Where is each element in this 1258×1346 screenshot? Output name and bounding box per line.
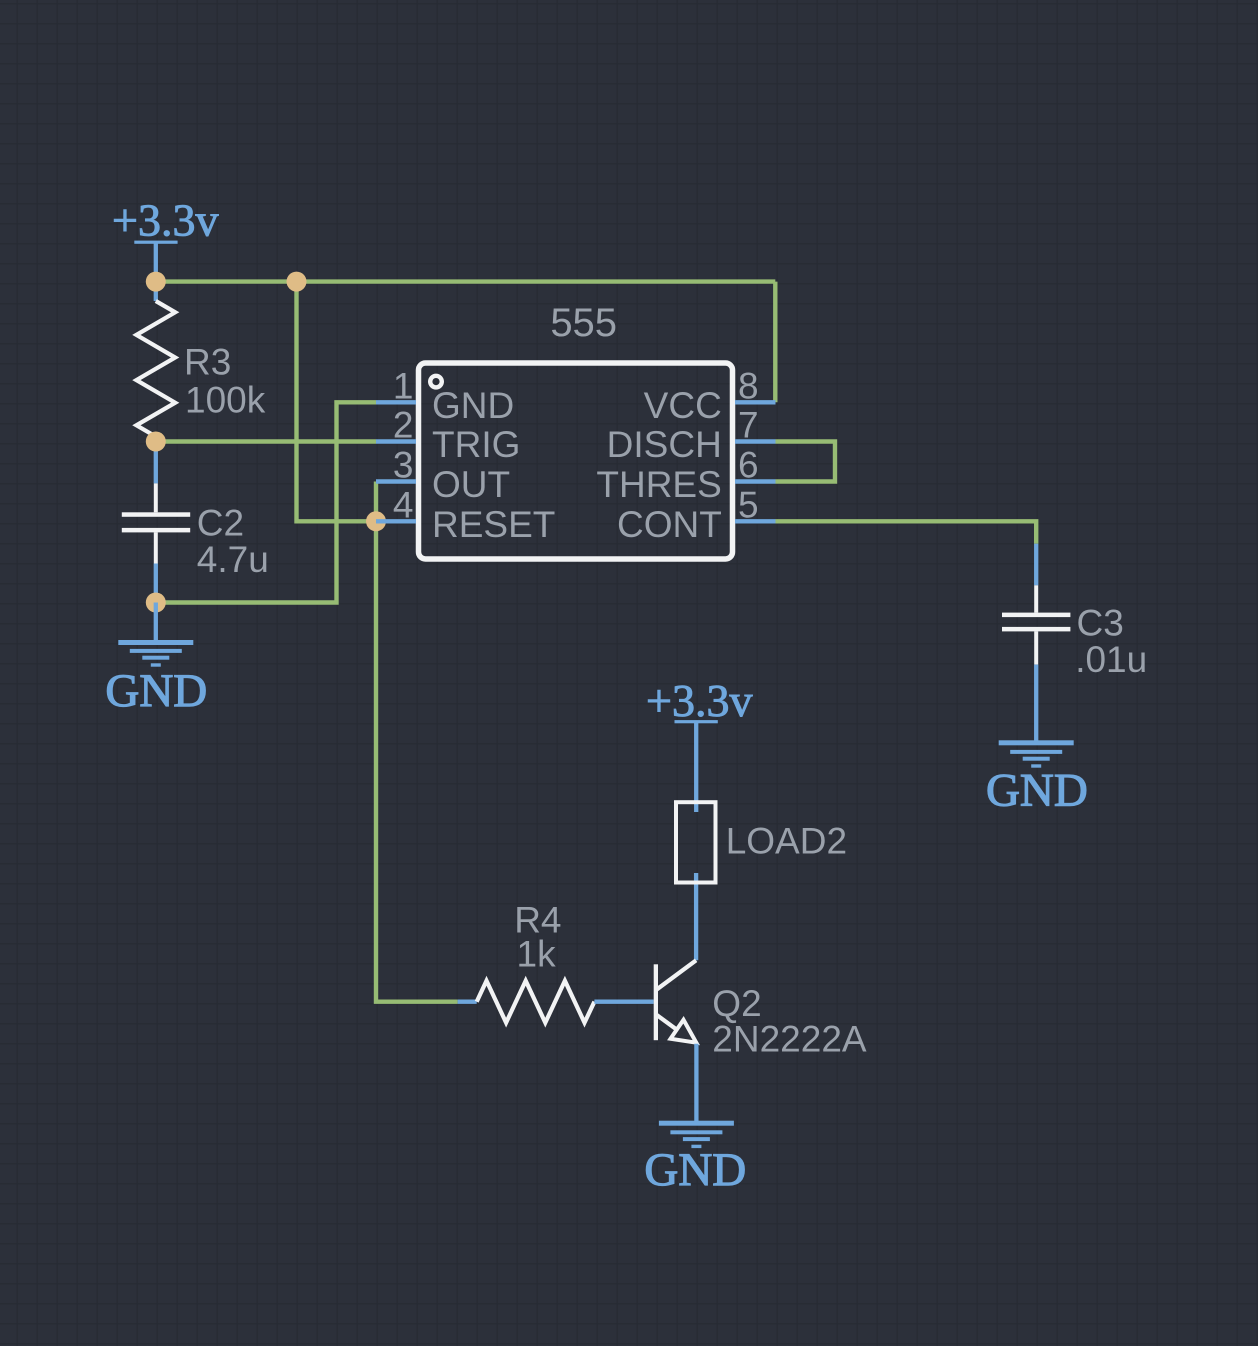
power +3.3v supply (above LOAD2) bbox=[646, 675, 752, 812]
ground (below C3) bbox=[986, 740, 1088, 816]
load LOAD2 bbox=[676, 802, 847, 882]
svg-text:OUT: OUT bbox=[432, 464, 510, 505]
svg-text:8: 8 bbox=[738, 365, 759, 406]
power +3.3v supply (top-left) bbox=[112, 195, 218, 283]
ground (below C2) bbox=[105, 603, 207, 718]
pin 4 RESET bbox=[376, 484, 555, 545]
resistor R4 bbox=[458, 900, 595, 1023]
wire VCC drop (rail down to pin 8) bbox=[773, 282, 777, 403]
pin 5 CONT bbox=[617, 484, 776, 545]
svg-text:GND: GND bbox=[986, 765, 1088, 817]
svg-text:THRES: THRES bbox=[596, 464, 721, 505]
svg-text:5: 5 bbox=[738, 484, 759, 525]
svg-text:3: 3 bbox=[393, 445, 414, 486]
pin 2 TRIG bbox=[376, 405, 520, 466]
node E (RESET / OUT junction at pin 4) bbox=[366, 511, 386, 531]
svg-text:C2: C2 bbox=[197, 503, 244, 544]
svg-text:2: 2 bbox=[393, 405, 414, 446]
svg-text:GND: GND bbox=[644, 1144, 746, 1196]
svg-text:+3.3v: +3.3v bbox=[112, 195, 218, 246]
op-amp U1 555 timer IC body bbox=[419, 301, 733, 559]
pin 7 DISCH bbox=[607, 405, 776, 466]
svg-text:RESET: RESET bbox=[432, 504, 555, 545]
svg-text:TRIG: TRIG bbox=[432, 424, 520, 465]
svg-text:GND: GND bbox=[432, 385, 514, 426]
capacitor C2 bbox=[122, 442, 269, 603]
svg-text:7: 7 bbox=[738, 405, 759, 446]
wire GND net (node D right and up to pin 1) bbox=[156, 402, 376, 602]
resistor R3 bbox=[136, 282, 265, 442]
node C (R3 / C2 / TRIG junction) bbox=[146, 432, 166, 452]
svg-text:DISCH: DISCH bbox=[607, 424, 722, 465]
svg-text:1k: 1k bbox=[517, 934, 557, 975]
svg-text:R3: R3 bbox=[184, 341, 231, 382]
pin 8 VCC bbox=[644, 365, 776, 426]
node B (rail / RESET branch) bbox=[287, 272, 307, 292]
node D (C2 / ground / pin1 junction) bbox=[146, 593, 166, 613]
svg-text:LOAD2: LOAD2 bbox=[726, 821, 847, 862]
svg-text:+3.3v: +3.3v bbox=[646, 675, 752, 726]
wire TRIG net (node C right to pin 2) bbox=[156, 439, 376, 443]
svg-text:555: 555 bbox=[550, 301, 617, 345]
transistor Q2 (NPN 2N2222A) bbox=[654, 960, 867, 1059]
svg-text:6: 6 bbox=[738, 445, 759, 486]
svg-text:VCC: VCC bbox=[644, 385, 722, 426]
svg-text:2N2222A: 2N2222A bbox=[712, 1019, 867, 1060]
svg-text:1: 1 bbox=[393, 365, 414, 406]
svg-text:4: 4 bbox=[393, 484, 414, 525]
svg-text:CONT: CONT bbox=[617, 504, 722, 545]
svg-text:.01u: .01u bbox=[1075, 639, 1147, 680]
ground (below Q2) bbox=[644, 1121, 746, 1196]
capacitor C3 bbox=[1002, 544, 1147, 742]
wire emitter to ground bbox=[694, 1044, 698, 1123]
wire DISCH to THRES bbox=[776, 442, 836, 482]
pin 1 GND bbox=[376, 365, 514, 426]
wire RESET net (node B down and right to pin 4 node) bbox=[297, 282, 377, 522]
svg-text:C3: C3 bbox=[1077, 603, 1124, 644]
wire LOAD2 to collector bbox=[694, 873, 698, 960]
wire OUT net (pin 3 down through node E, down to R4) bbox=[376, 482, 458, 1002]
pin 3 OUT bbox=[376, 445, 510, 506]
wire +3.3v rail (horizontal, node A to VCC drop) bbox=[156, 279, 776, 283]
svg-text:GND: GND bbox=[105, 665, 207, 717]
wire base (R4 to Q2) bbox=[594, 1000, 653, 1004]
svg-text:100k: 100k bbox=[185, 380, 266, 421]
pin 6 THRES bbox=[596, 445, 775, 506]
wire CONT net (pin 5 to C3) bbox=[776, 521, 1037, 543]
node A (+3.3v / R3 / rail junction) bbox=[146, 272, 166, 292]
svg-text:4.7u: 4.7u bbox=[197, 539, 269, 580]
